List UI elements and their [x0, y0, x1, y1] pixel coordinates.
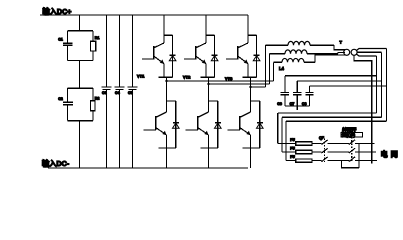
wire secondary exit a — [356, 49, 386, 51]
svg-text:输入DC-: 输入DC- — [42, 159, 70, 168]
wire phase b down-route — [282, 52, 382, 152]
wire phase bus leg VT3 — [249, 77, 265, 88]
freewheel diode upper leg VT1 — [169, 35, 176, 77]
svg-text:C2: C2 — [58, 97, 63, 101]
svg-text:C3: C3 — [102, 91, 107, 95]
transformer T secondary winding — [351, 49, 357, 55]
wire emitter to DC- leg VT1 — [159, 148, 176, 168]
switch QF linkage — [351, 137, 353, 162]
svg-text:R1: R1 — [95, 36, 100, 40]
transistor label VT1 — [137, 74, 145, 79]
svg-text:R2: R2 — [95, 96, 100, 100]
svg-text:FU: FU — [290, 146, 295, 150]
capacitor C8 filter — [302, 86, 314, 106]
fuse FU3 — [286, 155, 312, 162]
IGBT upper transistor leg VT2 — [184, 15, 215, 77]
node phase junction leg VT3 — [243, 76, 257, 78]
wire DC+ to RC pair 1 — [68, 15, 94, 31]
resistor R2 — [90, 88, 99, 121]
node grid label — [381, 149, 401, 158]
capacitor C2 — [58, 88, 73, 121]
wire breaker bottom loop — [342, 144, 360, 168]
svg-text:L4: L4 — [279, 66, 285, 71]
freewheel diode upper leg VT2 — [211, 35, 218, 77]
fuse FU1 — [278, 138, 312, 145]
switch QF contact row — [328, 148, 377, 153]
inductor L1 line 1 — [266, 41, 346, 49]
svg-text:VT1: VT1 — [137, 74, 145, 79]
capacitor C7 filter — [290, 81, 302, 106]
IGBT upper transistor leg VT3 — [226, 15, 257, 77]
svg-text:电网: 电网 — [381, 149, 401, 158]
wire secondary exit b — [357, 51, 382, 53]
svg-text:C4: C4 — [115, 91, 120, 95]
svg-text:FU: FU — [290, 155, 295, 159]
node DC+ label — [43, 7, 72, 16]
switch KM label — [319, 136, 325, 140]
svg-text:C1: C1 — [58, 38, 63, 42]
svg-text:VT3: VT3 — [225, 76, 233, 81]
node phase junction leg VT2 — [201, 76, 215, 78]
wire phase c down-route — [286, 49, 387, 161]
node phase junction leg VT1 — [159, 76, 173, 78]
wire DC+ rail — [40, 14, 248, 16]
fuse FU2 — [282, 146, 312, 153]
inductor label L4 — [279, 66, 285, 71]
switch QF contact row — [328, 140, 375, 145]
node DC- label — [42, 159, 70, 168]
capacitor C1 — [58, 31, 72, 61]
freewheel diode upper leg VT3 — [253, 35, 260, 77]
IGBT lower transistor leg VT1 — [143, 77, 176, 148]
IGBT lower transistor leg VT3 — [227, 77, 259, 148]
wire filter tap C6 — [285, 75, 377, 77]
capacitor C5 DC bus — [128, 15, 138, 168]
svg-text:C6: C6 — [277, 102, 282, 106]
capacitor C6 filter — [277, 76, 289, 106]
switch KM contact row — [312, 157, 328, 162]
wire phase bus leg VT2 — [207, 77, 269, 85]
wire secondary exit c — [356, 54, 376, 56]
freewheel diode lower leg VT1 — [173, 101, 180, 148]
wire riser phase A — [273, 62, 275, 81]
transistor label VT2 — [183, 75, 191, 80]
capacitor C4 DC bus — [115, 15, 125, 168]
wire filter tap C8 — [310, 85, 387, 87]
switch KM linkage — [324, 139, 326, 163]
capacitor C3 DC bus — [102, 15, 112, 168]
wire RC pair 1 bottom — [68, 61, 94, 89]
inductor L2 line 2 — [270, 50, 346, 54]
svg-text:T: T — [340, 40, 343, 45]
svg-text:C8: C8 — [302, 102, 307, 106]
transistor label VT3 — [225, 76, 233, 81]
svg-text:关(QF): 关(QF) — [342, 132, 356, 139]
svg-text:输入DC+: 输入DC+ — [43, 7, 72, 16]
switch QF contact row — [328, 157, 378, 162]
switch KM contact row — [312, 140, 328, 145]
transformer label T — [340, 40, 343, 45]
svg-text:VT2: VT2 — [183, 75, 191, 80]
wire RC pair 2 bottom to DC- — [68, 121, 94, 168]
svg-text:FU: FU — [290, 138, 295, 142]
transformer T primary winding — [344, 49, 350, 55]
freewheel diode lower leg VT3 — [257, 101, 264, 148]
switch KM contact row — [312, 148, 328, 153]
wire phase a down-route — [278, 56, 377, 144]
svg-text:C5: C5 — [128, 91, 133, 95]
svg-text:C7: C7 — [290, 102, 295, 106]
switch QF label box — [341, 127, 363, 139]
wire riser phase C — [265, 45, 267, 87]
wire DC- rail — [48, 167, 248, 169]
wire riser phase B — [269, 54, 271, 84]
svg-text:QF: QF — [319, 136, 325, 140]
wire filter tap C7 — [297, 80, 381, 82]
wire emitter to DC- leg VT3 — [243, 148, 260, 168]
wire emitter to DC- leg VT2 — [201, 148, 218, 168]
IGBT upper transistor leg VT1 — [142, 15, 173, 77]
wire filter cap common — [285, 106, 310, 110]
resistor R1 — [91, 31, 100, 61]
IGBT lower transistor leg VT2 — [185, 77, 218, 148]
inductor L3 line 3 — [274, 55, 346, 62]
wire phase bus leg VT1 — [165, 77, 273, 82]
wire neutral from transformer — [354, 55, 372, 163]
freewheel diode lower leg VT2 — [215, 101, 222, 148]
